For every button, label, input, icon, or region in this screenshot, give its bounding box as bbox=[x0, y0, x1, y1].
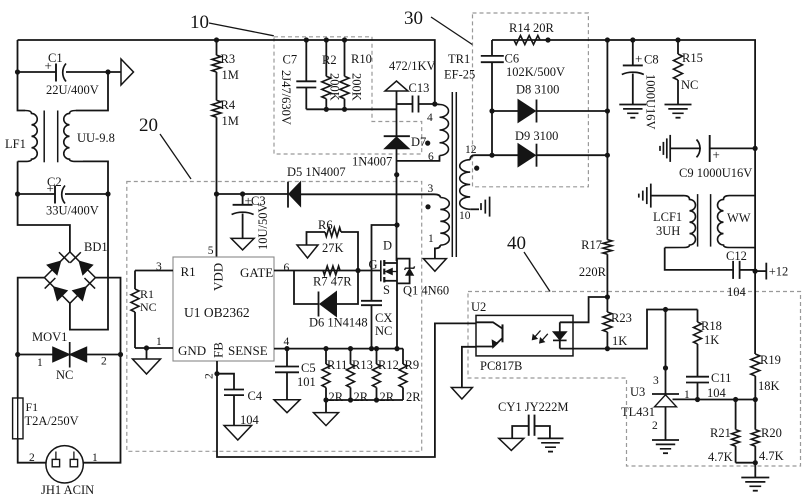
secondary winding pins 12-10 bbox=[460, 160, 470, 210]
wire: secondary top rail bbox=[492, 40, 755, 148]
svg-text:F1: F1 bbox=[26, 400, 39, 414]
node R2 top bbox=[324, 37, 329, 42]
resistor R12 2R bbox=[374, 346, 379, 351]
svg-text:1M: 1M bbox=[222, 68, 239, 82]
svg-text:R1: R1 bbox=[181, 264, 196, 279]
pin 3 wire (R1) bbox=[135, 270, 173, 272]
ground triangle R6 bbox=[297, 245, 318, 258]
winding phase dot (aux) bbox=[425, 204, 430, 209]
wire: LF1 bottoms to C2 row bbox=[17, 161, 19, 194]
svg-text:2R: 2R bbox=[329, 390, 344, 404]
svg-text:2R: 2R bbox=[406, 390, 421, 404]
resistor R21 4.7K bbox=[735, 400, 737, 430]
U2 light arrows bbox=[533, 331, 540, 339]
wire: snubber vertical bbox=[396, 91, 398, 136]
ground triangle C5 bbox=[274, 400, 300, 413]
node C1 right bbox=[105, 69, 110, 74]
node +12 bbox=[753, 269, 758, 274]
capacitor C4 104 bbox=[217, 374, 234, 390]
capacitor C3 10U/50V bbox=[242, 194, 244, 205]
svg-text:1K: 1K bbox=[612, 334, 627, 348]
svg-text:TR1: TR1 bbox=[448, 52, 470, 66]
svg-text:NC: NC bbox=[140, 300, 157, 314]
svg-text:+: + bbox=[635, 51, 642, 66]
ground TL431 bbox=[652, 439, 679, 441]
capacitor C6 102K/500V bbox=[491, 40, 493, 56]
svg-text:+: + bbox=[713, 147, 720, 162]
wire: ref down to TL431 bbox=[665, 310, 667, 395]
wire: R23 bottom to TL431 / R18 bbox=[607, 310, 697, 349]
node C7 top bbox=[304, 37, 309, 42]
wire: ACIN pin1 up to MOV right bbox=[83, 355, 120, 463]
svg-text:R15: R15 bbox=[682, 51, 703, 65]
svg-text:C4: C4 bbox=[248, 389, 263, 403]
svg-text:D7: D7 bbox=[411, 135, 426, 149]
svg-text:UU-9.8: UU-9.8 bbox=[77, 131, 115, 145]
svg-text:LF1: LF1 bbox=[5, 137, 26, 151]
node R17/R23 bbox=[605, 294, 610, 299]
ground C8 bbox=[619, 104, 646, 106]
capacitor C11 104 bbox=[697, 344, 699, 377]
wire: U2 emitter to ground bbox=[462, 347, 476, 388]
svg-text:2: 2 bbox=[204, 373, 216, 379]
svg-text:R11: R11 bbox=[327, 358, 347, 372]
svg-text:3: 3 bbox=[156, 261, 162, 273]
resistor R15 NC bbox=[675, 37, 680, 42]
fuse F1 T2A/250V bbox=[13, 398, 23, 439]
svg-text:27K: 27K bbox=[322, 241, 344, 255]
svg-text:5: 5 bbox=[208, 245, 214, 257]
svg-text:R19: R19 bbox=[760, 353, 781, 367]
resistor R10 200K bbox=[344, 40, 346, 76]
primary winding pins 4-6 bbox=[440, 105, 449, 156]
svg-text:SENSE: SENSE bbox=[228, 343, 268, 358]
svg-text:NC: NC bbox=[375, 324, 392, 338]
wire VDD row bbox=[217, 193, 289, 195]
svg-text:+12: +12 bbox=[769, 265, 789, 279]
svg-text:U3: U3 bbox=[630, 385, 645, 399]
svg-text:GND: GND bbox=[178, 343, 206, 358]
primary winding pins 3-1 (aux) bbox=[440, 198, 449, 246]
capacitor C8 1000U16V bbox=[630, 37, 635, 42]
svg-text:R13: R13 bbox=[352, 358, 373, 372]
resistor R17 220R bbox=[603, 240, 612, 255]
svg-text:104: 104 bbox=[707, 386, 727, 400]
svg-text:FB: FB bbox=[211, 342, 226, 358]
wire D5 anode to aux winding pin 3 bbox=[301, 193, 434, 195]
shunt regulator U3 TL431 bbox=[652, 393, 679, 395]
inductor LCF1 3UH / WW (output choke) bbox=[754, 148, 756, 271]
resistor R23 1K bbox=[606, 297, 608, 312]
svg-text:R12: R12 bbox=[378, 358, 399, 372]
resistor R2 200K bbox=[325, 40, 327, 76]
svg-text:3: 3 bbox=[653, 375, 659, 387]
svg-text:1000U16V: 1000U16V bbox=[644, 74, 658, 130]
capacitor C5 101 bbox=[284, 346, 289, 351]
svg-text:D9 3100: D9 3100 bbox=[515, 129, 558, 143]
resistor R9 2R bbox=[402, 349, 404, 364]
svg-text:C11: C11 bbox=[711, 371, 731, 385]
node C1 left bbox=[15, 69, 20, 74]
U2 phototransistor bbox=[502, 324, 504, 342]
wire: clamp bottom rail bbox=[306, 108, 396, 110]
svg-text:101: 101 bbox=[297, 375, 316, 389]
svg-text:R3: R3 bbox=[221, 52, 236, 66]
svg-text:R4: R4 bbox=[221, 98, 236, 112]
svg-text:NC: NC bbox=[56, 368, 73, 382]
node gate bbox=[355, 268, 360, 273]
resistor R13 2R bbox=[348, 346, 353, 351]
pin 1 wire (GND) bbox=[135, 347, 173, 349]
svg-text:C2: C2 bbox=[47, 175, 62, 189]
svg-text:2J47/630V: 2J47/630V bbox=[279, 70, 293, 125]
svg-text:220R: 220R bbox=[579, 265, 607, 279]
ground (net triangle) at pin 1 bbox=[423, 259, 446, 272]
resistor R20 4.7K bbox=[754, 400, 756, 430]
wire: C2 right node to bridge bottom bbox=[70, 194, 108, 330]
svg-text:10: 10 bbox=[190, 12, 209, 33]
svg-text:102K/500V: 102K/500V bbox=[506, 65, 565, 79]
wire: MOV left to fuse to ACIN bbox=[18, 355, 46, 463]
wire: drain vertical bbox=[396, 175, 398, 261]
capacitor CX NC bbox=[372, 225, 398, 301]
winding phase dot (secondary) bbox=[474, 166, 479, 171]
svg-text:EF-25: EF-25 bbox=[444, 68, 475, 82]
IC U1 OB2362 box bbox=[173, 257, 274, 361]
svg-text:VDD: VDD bbox=[211, 263, 226, 291]
svg-text:U2: U2 bbox=[471, 300, 486, 314]
node C2 right bbox=[105, 191, 110, 196]
diode D7 1N4007 (pointing up, cathode bar on top) bbox=[384, 135, 410, 137]
svg-text:2R: 2R bbox=[380, 390, 395, 404]
resistor R18 1K bbox=[697, 310, 699, 323]
svg-text:D: D bbox=[383, 239, 392, 253]
wire: output bus vertical bbox=[606, 40, 608, 240]
node C3 bbox=[240, 191, 245, 196]
dashed box 20 bbox=[127, 182, 422, 452]
svg-text:R7 47R: R7 47R bbox=[313, 275, 352, 289]
svg-text:PC817B: PC817B bbox=[480, 359, 522, 373]
svg-text:R17: R17 bbox=[581, 238, 602, 252]
svg-text:R18: R18 bbox=[701, 319, 722, 333]
resistor R6 27K bbox=[307, 232, 326, 245]
svg-text:WW: WW bbox=[727, 211, 751, 225]
node D9 anode row / pin 12 bbox=[489, 153, 494, 158]
node drain/CX bbox=[394, 222, 399, 227]
dashed box 30 bbox=[473, 13, 589, 187]
capacitor C9 1000U16V (horizontal electrolytic) bbox=[669, 135, 671, 162]
wire: sense resistor bottom rail bbox=[326, 399, 403, 401]
svg-text:12: 12 bbox=[465, 144, 477, 156]
svg-text:C12: C12 bbox=[726, 249, 747, 263]
wire: C2 left node to bridge top bbox=[18, 194, 70, 252]
node ref bbox=[663, 307, 668, 312]
svg-text:2: 2 bbox=[652, 420, 658, 432]
svg-text:1M: 1M bbox=[222, 114, 239, 128]
svg-text:2: 2 bbox=[101, 356, 107, 368]
wire: divider bottom bbox=[736, 462, 756, 464]
U2 LED bbox=[553, 332, 567, 340]
diode D6 1N4148 (anti-parallel, pointing left) bbox=[294, 271, 319, 305]
svg-text:JH1 ACIN: JH1 ACIN bbox=[41, 483, 94, 497]
wire: left edge down to LF1 bbox=[18, 40, 26, 111]
node Q1 source bbox=[394, 346, 399, 351]
svg-text:D8 3100: D8 3100 bbox=[516, 83, 559, 97]
resistor R1 NC bbox=[134, 271, 136, 290]
svg-text:3: 3 bbox=[428, 183, 434, 195]
svg-text:2: 2 bbox=[29, 452, 35, 464]
ground triangle sense rail bbox=[325, 400, 327, 413]
diode D9 3100 (pointing right) bbox=[492, 154, 518, 156]
net arrow (right-pointing triangle) bbox=[121, 59, 134, 85]
svg-text:2R: 2R bbox=[354, 390, 369, 404]
svg-text:33U/400V: 33U/400V bbox=[46, 204, 99, 218]
ground triangle C3 bbox=[231, 238, 254, 250]
svg-text:10U/50V: 10U/50V bbox=[256, 203, 270, 250]
node C2 left bbox=[15, 191, 20, 196]
svg-text:1: 1 bbox=[37, 357, 43, 369]
node pin4/C13 bbox=[432, 101, 437, 106]
svg-text:R6: R6 bbox=[318, 218, 333, 232]
wire: C1 row right bbox=[66, 71, 121, 73]
svg-text:1N4007: 1N4007 bbox=[352, 155, 392, 169]
svg-text:4.7K: 4.7K bbox=[708, 450, 733, 464]
varistor MOV1 (NC) bbox=[15, 352, 20, 357]
svg-text:S: S bbox=[383, 283, 390, 297]
node D8 anode row bbox=[489, 108, 494, 113]
svg-text:30: 30 bbox=[404, 8, 423, 29]
wire R3-R4 bbox=[216, 72, 218, 100]
wire: TL431 ref row bbox=[698, 399, 756, 401]
capacitor C2 33U/400V bbox=[18, 193, 55, 195]
svg-text:200K: 200K bbox=[350, 73, 364, 101]
resistor R19 18K bbox=[754, 271, 756, 354]
wire: right side down to LF1 bbox=[76, 72, 108, 111]
svg-text:C9 1000U16V: C9 1000U16V bbox=[679, 166, 752, 180]
svg-text:C8: C8 bbox=[644, 53, 659, 67]
svg-text:C5: C5 bbox=[301, 361, 316, 375]
connector JH1 ACIN bbox=[46, 446, 83, 483]
Q1 body diode (zener) bbox=[397, 259, 410, 268]
svg-text:BD1: BD1 bbox=[84, 240, 108, 254]
svg-text:18K: 18K bbox=[758, 379, 780, 393]
svg-text:6: 6 bbox=[428, 151, 434, 163]
node R10 top bbox=[342, 37, 347, 42]
resistor R7 47R bbox=[323, 266, 340, 275]
wire pin 10 to chassis bbox=[470, 208, 479, 210]
svg-text:1: 1 bbox=[156, 336, 162, 348]
svg-text:D6 1N4148: D6 1N4148 bbox=[309, 316, 368, 330]
resistor R11 2R bbox=[323, 346, 328, 351]
svg-text:22U/400V: 22U/400V bbox=[46, 83, 99, 97]
svg-text:4.7K: 4.7K bbox=[759, 449, 784, 463]
svg-text:R21: R21 bbox=[710, 426, 731, 440]
ground triangle C4 bbox=[224, 426, 252, 441]
svg-text:R1: R1 bbox=[140, 287, 154, 301]
capacitor C7 2J47/630V bbox=[305, 40, 307, 81]
svg-text:C13: C13 bbox=[409, 81, 430, 95]
svg-text:R20: R20 bbox=[761, 426, 782, 440]
wire: bridge right vertex to MOV row bbox=[95, 278, 120, 355]
svg-text:U1 OB2362: U1 OB2362 bbox=[184, 305, 250, 320]
capacitor C12 104 bbox=[732, 261, 734, 279]
wire pin1 to primary-ground triangle bbox=[435, 245, 440, 259]
wire R4 down to VDD node bbox=[216, 117, 218, 257]
svg-text:CY1 JY222M: CY1 JY222M bbox=[498, 400, 569, 414]
svg-text:10: 10 bbox=[459, 210, 471, 222]
dashed box 10 bbox=[274, 37, 422, 154]
svg-text:T2A/250V: T2A/250V bbox=[25, 414, 79, 428]
svg-text:1: 1 bbox=[428, 233, 434, 245]
wire: bridge left vertex to MOV row bbox=[18, 278, 45, 355]
ground triangle U1 GND bbox=[146, 348, 148, 359]
svg-text:Q1 4N60: Q1 4N60 bbox=[403, 284, 449, 298]
ground R15 bbox=[665, 104, 692, 106]
svg-text:G: G bbox=[368, 258, 377, 272]
node D7/pin6 junction bbox=[394, 172, 399, 177]
svg-text:20: 20 bbox=[139, 115, 158, 136]
wire pin 6 to D7 node bbox=[397, 156, 440, 161]
svg-text:C6: C6 bbox=[505, 52, 520, 66]
pin 2 wire (FB) bbox=[217, 323, 476, 457]
dashed box 40 bbox=[468, 292, 801, 467]
svg-text:D5 1N4007: D5 1N4007 bbox=[287, 165, 346, 179]
capacitor C1 22U/400V bbox=[55, 64, 57, 82]
diode D5 1N4007 (pointing left) bbox=[287, 182, 289, 208]
diode D8 3100 (pointing right) bbox=[492, 110, 518, 112]
svg-text:1K: 1K bbox=[704, 333, 719, 347]
svg-text:R23: R23 bbox=[611, 311, 632, 325]
+12 output terminal bbox=[755, 270, 766, 272]
svg-text:TL431: TL431 bbox=[621, 405, 655, 419]
svg-text:R2: R2 bbox=[322, 53, 337, 67]
winding phase dot (primary upper) bbox=[425, 141, 430, 146]
svg-text:LCF1: LCF1 bbox=[653, 210, 682, 224]
svg-text:40: 40 bbox=[507, 233, 526, 254]
bridge rectifier BD1 bbox=[44, 252, 95, 303]
svg-text:1: 1 bbox=[92, 452, 98, 464]
wire: choke bottoms to C12 bbox=[665, 248, 733, 270]
node R23 bottom bbox=[605, 346, 610, 351]
svg-text:6: 6 bbox=[284, 262, 290, 274]
svg-text:3UH: 3UH bbox=[656, 224, 680, 238]
ground divider bbox=[754, 463, 756, 478]
svg-text:R14 20R: R14 20R bbox=[509, 21, 554, 35]
svg-text:GATE: GATE bbox=[240, 265, 273, 280]
transistor Q1 4N60 (N-MOSFET) bbox=[380, 260, 382, 281]
svg-text:CX: CX bbox=[375, 311, 392, 325]
resistor R4 1M bbox=[212, 100, 221, 117]
svg-text:C7: C7 bbox=[283, 53, 298, 67]
wire: LED anode to R23 top node bbox=[560, 297, 608, 322]
svg-text:NC: NC bbox=[681, 78, 698, 92]
transformer core bbox=[451, 92, 453, 257]
wire pin 12 bbox=[470, 155, 492, 160]
svg-text:R10: R10 bbox=[351, 52, 372, 66]
node R3 top bbox=[214, 37, 219, 42]
node VDD rail bbox=[214, 191, 219, 196]
wire: LED cathode to R23 bottom node bbox=[560, 348, 608, 350]
pin 4 wire (SENSE) bbox=[274, 348, 403, 350]
svg-text:MOV1: MOV1 bbox=[32, 330, 67, 344]
resistor R14 20R bbox=[514, 36, 540, 45]
svg-text:104: 104 bbox=[727, 285, 747, 299]
svg-text:4: 4 bbox=[427, 112, 433, 124]
pin 6 wire (GATE) bbox=[274, 270, 381, 272]
svg-text:R9: R9 bbox=[405, 358, 420, 372]
svg-text:C1: C1 bbox=[48, 51, 63, 65]
optocoupler U2 PC817B bbox=[476, 315, 573, 356]
resistor R3 1M bbox=[216, 40, 218, 55]
svg-text:472/1KV: 472/1KV bbox=[389, 59, 436, 73]
capacitor C13 bbox=[397, 103, 413, 105]
ground (sideways) at pin 10 bbox=[480, 203, 482, 210]
wire: C1 row left bbox=[18, 71, 57, 73]
svg-text:1: 1 bbox=[684, 389, 690, 401]
wire: top rail (HV bus) bbox=[18, 40, 435, 104]
inductor LF1 UU-9.8 (common-mode choke) bbox=[18, 111, 38, 162]
